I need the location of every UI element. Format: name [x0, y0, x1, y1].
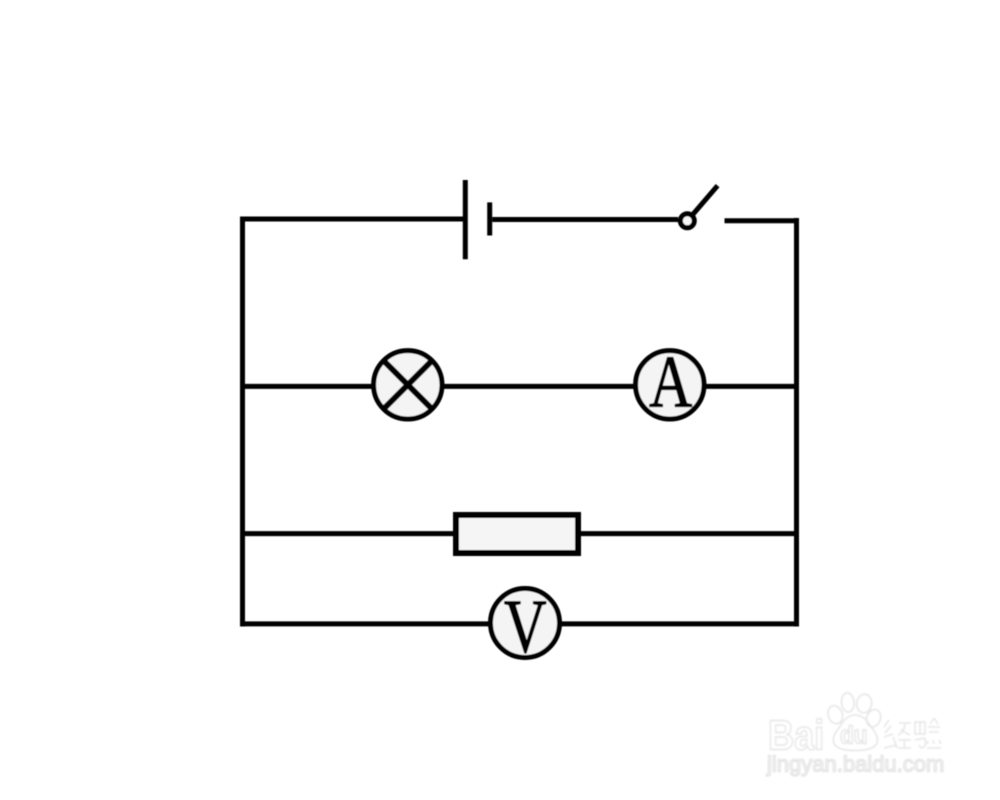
svg-text:du: du: [840, 721, 867, 749]
svg-text:A: A: [649, 340, 692, 423]
svg-text:jingyan.baidu.com: jingyan.baidu.com: [766, 752, 944, 777]
svg-text:V: V: [504, 584, 547, 669]
